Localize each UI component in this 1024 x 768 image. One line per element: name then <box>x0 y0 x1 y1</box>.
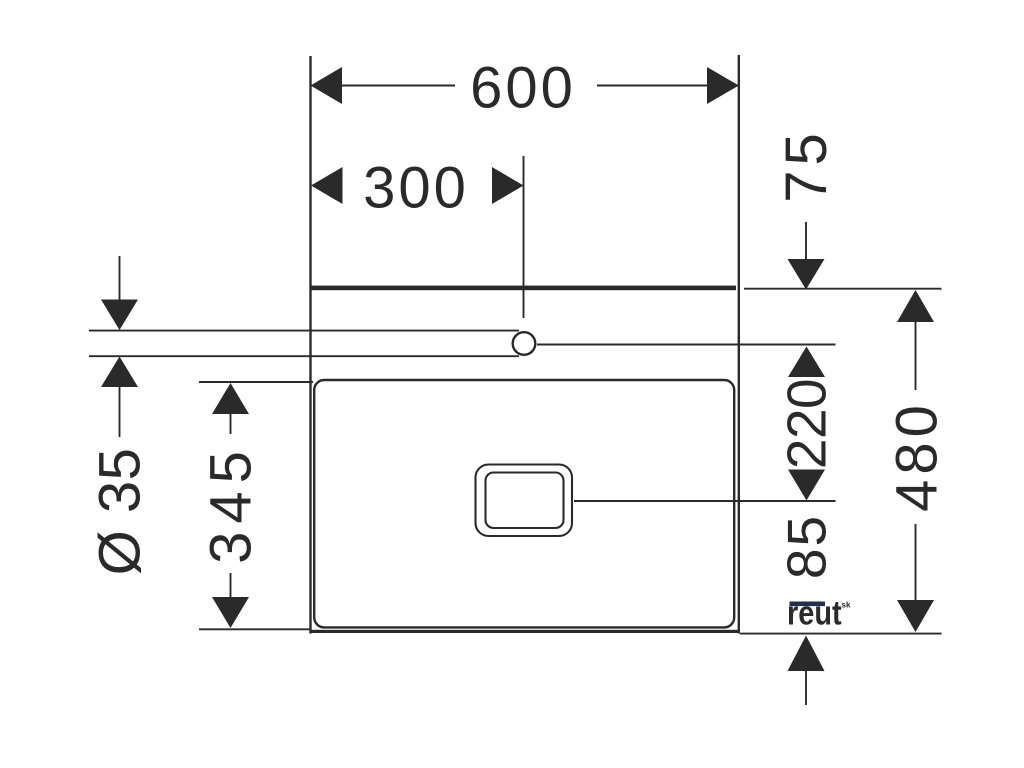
dimension 220: lower arrow pointing down <box>788 470 825 501</box>
basin top edge (thick back rim) <box>310 286 736 291</box>
dimension 75: arrow pointing down <box>788 259 825 290</box>
svg-text:Ø 35: Ø 35 <box>88 448 153 576</box>
dimension Ø35: lower leader line <box>119 387 121 437</box>
dimension 600: right arrow <box>707 67 739 104</box>
dimension 345: top arrow pointing up <box>212 383 249 414</box>
dimension 75: leader line <box>805 222 807 261</box>
dimension 220: upper arrow pointing up <box>788 347 825 378</box>
svg-text:sk: sk <box>842 601 851 610</box>
dimension 480: bottom arrow pointing down <box>897 600 934 632</box>
reut logo: bar over reu <box>790 602 826 607</box>
dimension 300: left arrow <box>311 167 343 204</box>
drain outer rounded rectangle <box>476 465 573 537</box>
dimension 345: top extension line <box>199 381 313 383</box>
dimension 85: bottom tail line <box>805 671 807 705</box>
wire: left extension line of 600 / basin left edge <box>309 56 311 634</box>
dimension 480: top arrow pointing up <box>897 290 934 322</box>
wire: bottom extension line to 480 dimension <box>740 633 942 635</box>
wire: upper tangent line from faucet hole to left <box>89 330 519 332</box>
drain inner rounded rectangle <box>486 473 564 529</box>
wire: top extension line to 480 dimension <box>744 288 942 290</box>
wire: extension line below 300 down to faucet hole <box>523 156 525 318</box>
svg-text:75: 75 <box>774 128 839 203</box>
svg-text:480: 480 <box>885 400 950 512</box>
wire: right extension line of 600 / basin right edge <box>738 55 740 634</box>
dimension 300: right arrow <box>492 167 524 204</box>
inner bowl rounded rectangle <box>314 380 734 627</box>
svg-text:345: 345 <box>199 443 264 564</box>
svg-text:reut: reut <box>787 593 842 632</box>
faucet hole circle <box>513 332 536 355</box>
dimension 345: bottom arrow pointing down <box>212 597 249 628</box>
dimension 600: left arrow <box>311 67 343 104</box>
dimension 345: upper tail line <box>230 414 232 434</box>
svg-text:600: 600 <box>470 56 576 121</box>
dimension 480: upper line <box>915 322 917 390</box>
svg-text:300: 300 <box>363 156 469 221</box>
dimension 600: dimension line left segment <box>311 85 455 87</box>
dimension Ø35: upper leader line <box>119 256 121 302</box>
wire: line from drain to right <box>574 500 836 502</box>
dimension 600: dimension line right segment <box>597 85 738 87</box>
dimension 345: lower tail line <box>230 573 232 597</box>
basin bottom edge <box>310 630 740 633</box>
dimension 345: bottom extension line <box>199 628 311 630</box>
dimension 85: bottom arrow pointing up below drawing <box>788 636 825 672</box>
dimension Ø35: lower arrow pointing up <box>101 357 138 388</box>
svg-text:85: 85 <box>776 514 838 579</box>
wire: lower tangent line from faucet hole to left <box>89 355 519 357</box>
svg-text:220: 220 <box>776 379 838 469</box>
dimension 480: lower line <box>915 524 917 600</box>
wire: centre line from faucet hole to right <box>537 344 836 346</box>
dimension Ø35: upper arrow pointing down <box>101 300 138 331</box>
